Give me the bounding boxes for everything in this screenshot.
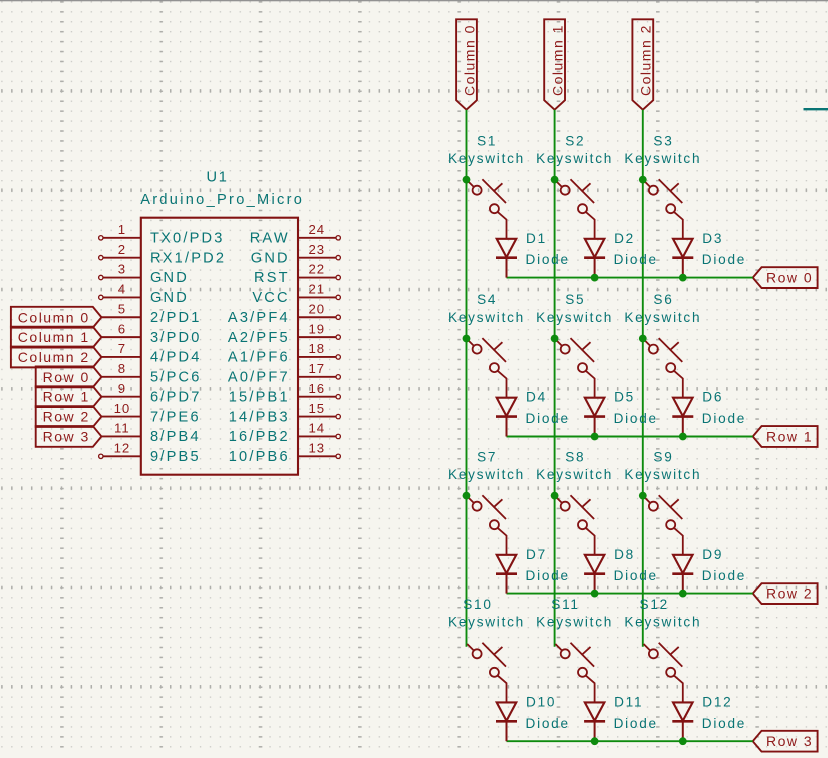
svg-text:RAW: RAW: [250, 231, 290, 247]
svg-text:11: 11: [114, 421, 130, 436]
diode D7: [496, 555, 517, 594]
keyswitch S7: [467, 495, 506, 555]
svg-text:14/PB3: 14/PB3: [229, 409, 290, 425]
svg-text:A2/PF5: A2/PF5: [228, 330, 290, 346]
svg-text:12: 12: [114, 441, 131, 456]
svg-text:S1: S1: [477, 133, 497, 148]
svg-text:D11: D11: [614, 694, 643, 709]
svg-text:10/PB6: 10/PB6: [229, 449, 290, 465]
svg-text:S7: S7: [477, 449, 497, 464]
svg-text:Column 2: Column 2: [18, 349, 90, 365]
hierarchical label Column 0: [11, 307, 102, 328]
svg-text:21: 21: [308, 282, 325, 297]
wire Column 2 vertical: [642, 110, 644, 647]
svg-text:15: 15: [308, 401, 325, 416]
pin 21 VCC (right): [252, 282, 340, 307]
diode D4: [496, 398, 517, 437]
svg-text:A1/PF6: A1/PF6: [228, 350, 290, 366]
svg-text:Arduino_Pro_Micro: Arduino_Pro_Micro: [140, 192, 304, 208]
junction Row 2 / D8: [591, 590, 599, 598]
svg-text:S4: S4: [477, 292, 497, 307]
wire Row 0 horizontal: [507, 277, 753, 279]
diode D6: [672, 398, 693, 437]
wire Column 0 vertical: [466, 110, 468, 647]
hierarchical label Row 2 (right): [753, 583, 818, 604]
svg-text:Keyswitch: Keyswitch: [536, 310, 613, 325]
svg-text:RX1/PD2: RX1/PD2: [150, 250, 226, 266]
svg-text:VCC: VCC: [252, 290, 289, 306]
svg-text:Diode: Diode: [614, 716, 658, 731]
svg-text:13: 13: [308, 441, 325, 456]
svg-text:16/PB2: 16/PB2: [229, 429, 290, 445]
pin 14 16/PB2 (right): [229, 421, 341, 446]
keyswitch S1: [467, 179, 506, 239]
keyswitch S5: [555, 338, 594, 398]
svg-text:9: 9: [118, 381, 126, 396]
junction Column 0 / S4: [463, 335, 471, 343]
wire Row 2 horizontal: [507, 593, 753, 595]
keyswitch S3: [644, 179, 683, 239]
svg-text:18: 18: [308, 341, 325, 356]
svg-text:8: 8: [118, 361, 126, 376]
diode D8: [584, 555, 605, 594]
keyswitch S6: [644, 338, 683, 398]
hierarchical label Row 1 (right): [753, 426, 818, 447]
svg-text:Column 1: Column 1: [18, 329, 90, 345]
pin 17 A0/PF7 (right): [228, 361, 340, 386]
junction Row 0 / D3: [679, 274, 687, 282]
svg-text:Diode: Diode: [614, 411, 658, 426]
svg-text:10: 10: [114, 401, 131, 416]
svg-text:Column 0: Column 0: [18, 309, 90, 325]
stray teal wire stub (right edge): [804, 108, 828, 110]
svg-text:6: 6: [118, 321, 126, 336]
hierarchical label Row 3 (right): [753, 731, 818, 752]
hierarchical label Row 3: [36, 426, 102, 447]
svg-text:4/PD4: 4/PD4: [150, 350, 202, 366]
svg-text:Diode: Diode: [526, 252, 570, 267]
junction Column 2 / S9: [639, 492, 647, 500]
pin 9 6/PD7 (left): [101, 381, 201, 406]
svg-text:TX0/PD3: TX0/PD3: [150, 231, 225, 247]
svg-text:Keyswitch: Keyswitch: [624, 467, 701, 482]
junction Column 0 / S1: [463, 176, 471, 184]
pin 15 14/PB3 (right): [229, 401, 341, 426]
svg-text:5/PC6: 5/PC6: [150, 370, 202, 386]
svg-text:D10: D10: [526, 694, 556, 709]
keyswitch S11: [555, 643, 594, 703]
svg-text:D4: D4: [526, 390, 547, 405]
svg-text:Keyswitch: Keyswitch: [448, 467, 525, 482]
diode D9: [672, 555, 693, 594]
svg-text:9/PB5: 9/PB5: [150, 449, 201, 465]
keyswitch S2: [555, 179, 594, 239]
svg-text:RST: RST: [254, 270, 290, 286]
svg-text:Row 2: Row 2: [766, 586, 813, 602]
svg-text:Diode: Diode: [702, 568, 746, 583]
junction Row 1 / D6: [679, 433, 687, 441]
svg-text:16: 16: [308, 381, 325, 396]
pin 3 GND (left): [99, 262, 189, 287]
pin 7 4/PD4 (left): [101, 341, 201, 366]
hierarchical label Column 2: [11, 347, 102, 368]
svg-text:4: 4: [118, 282, 126, 297]
svg-text:S5: S5: [565, 292, 585, 307]
svg-text:Column 2: Column 2: [638, 24, 654, 96]
svg-text:Diode: Diode: [526, 568, 570, 583]
svg-text:Diode: Diode: [526, 716, 570, 731]
keyswitch S8: [555, 495, 594, 555]
svg-text:Column 1: Column 1: [549, 24, 565, 96]
svg-text:D12: D12: [702, 694, 732, 709]
keyswitch S10: [467, 643, 506, 703]
svg-text:Keyswitch: Keyswitch: [448, 151, 525, 166]
hierarchical label Column 2 (top): [632, 19, 653, 109]
svg-text:Row 3: Row 3: [766, 733, 813, 749]
svg-text:D7: D7: [526, 547, 547, 562]
svg-text:23: 23: [308, 242, 325, 257]
svg-text:U1: U1: [207, 170, 229, 186]
diode D2: [584, 239, 605, 278]
svg-text:7: 7: [118, 341, 126, 356]
svg-text:Row 3: Row 3: [43, 428, 90, 444]
junction Row 3 / D11: [591, 737, 599, 745]
keyswitch S4: [467, 338, 506, 398]
svg-text:8/PB4: 8/PB4: [150, 429, 201, 445]
svg-text:7/PE6: 7/PE6: [150, 409, 201, 425]
svg-text:Keyswitch: Keyswitch: [536, 151, 613, 166]
svg-text:Row 0: Row 0: [43, 369, 90, 385]
diode D3: [672, 239, 693, 278]
svg-text:S8: S8: [565, 449, 585, 464]
svg-text:S3: S3: [653, 133, 673, 148]
junction Column 1 / S8: [551, 492, 559, 500]
svg-text:Keyswitch: Keyswitch: [536, 615, 613, 630]
svg-text:Row 1: Row 1: [43, 389, 90, 405]
hierarchical label Column 1: [11, 327, 102, 348]
svg-text:A0/PF7: A0/PF7: [228, 370, 290, 386]
pin 8 5/PC6 (left): [101, 361, 201, 386]
pin 2 RX1/PD2 (left): [99, 242, 227, 266]
svg-text:14: 14: [308, 421, 325, 436]
svg-text:20: 20: [308, 301, 325, 316]
svg-text:S12: S12: [640, 597, 669, 612]
svg-text:GND: GND: [251, 250, 290, 266]
diode D1: [496, 239, 517, 278]
svg-text:Keyswitch: Keyswitch: [448, 310, 525, 325]
diode D11: [584, 702, 605, 741]
svg-text:S6: S6: [653, 292, 673, 307]
keyswitch S12: [644, 643, 683, 703]
hierarchical label Row 0: [36, 366, 102, 387]
pin 20 A3/PF4 (right): [228, 301, 340, 326]
junction Column 2 / S6: [639, 335, 647, 343]
svg-text:Keyswitch: Keyswitch: [624, 151, 701, 166]
junction Column 2 / S3: [639, 176, 647, 184]
IC U1 Arduino_Pro_Micro body: [141, 218, 298, 475]
diode D5: [584, 398, 605, 437]
junction Column 1 / S5: [551, 335, 559, 343]
hierarchical label Row 1: [36, 386, 102, 407]
svg-text:Diode: Diode: [702, 252, 746, 267]
svg-text:S11: S11: [551, 597, 579, 612]
svg-text:3: 3: [118, 262, 126, 277]
svg-text:17: 17: [308, 361, 325, 376]
svg-text:Diode: Diode: [702, 716, 746, 731]
pin 13 10/PB6 (right): [229, 441, 341, 466]
pin 10 7/PE6 (left): [101, 401, 200, 426]
svg-text:Keyswitch: Keyswitch: [536, 467, 613, 482]
svg-text:Row 0: Row 0: [766, 270, 813, 286]
svg-text:Row 2: Row 2: [43, 409, 90, 425]
pin 12 9/PB5 (left): [99, 441, 201, 466]
svg-text:1: 1: [118, 222, 126, 237]
svg-text:Keyswitch: Keyswitch: [624, 615, 701, 630]
junction Row 0 / D2: [591, 274, 599, 282]
pin 1 TX0/PD3 (left): [99, 222, 225, 247]
svg-text:D6: D6: [702, 390, 723, 405]
junction Column 1 / S2: [551, 176, 559, 184]
svg-text:22: 22: [308, 262, 325, 277]
svg-text:Diode: Diode: [526, 411, 570, 426]
svg-text:D3: D3: [702, 231, 723, 246]
svg-text:D9: D9: [702, 547, 723, 562]
pin 11 8/PB4 (left): [101, 421, 200, 446]
top window edge: [0, 0, 828, 1]
diode D12: [672, 702, 693, 741]
svg-text:Diode: Diode: [614, 568, 658, 583]
svg-text:D8: D8: [614, 547, 635, 562]
svg-text:S10: S10: [463, 597, 492, 612]
svg-text:2: 2: [118, 242, 126, 257]
pin 5 2/PD1 (left): [101, 301, 201, 326]
svg-text:19: 19: [308, 321, 325, 336]
svg-text:15/PB1: 15/PB1: [229, 389, 290, 405]
svg-text:GND: GND: [150, 290, 189, 306]
pin 16 15/PB1 (right): [229, 381, 341, 406]
junction Column 0 / S7: [463, 492, 471, 500]
pin 6 3/PD0 (left): [101, 321, 201, 346]
junction Row 2 / D9: [679, 590, 687, 598]
svg-text:6/PD7: 6/PD7: [150, 389, 202, 405]
svg-text:Diode: Diode: [702, 411, 746, 426]
svg-text:D2: D2: [614, 231, 635, 246]
svg-text:Diode: Diode: [614, 252, 658, 267]
svg-text:S9: S9: [653, 449, 673, 464]
keyswitch S9: [644, 495, 683, 555]
svg-text:Column 0: Column 0: [461, 24, 477, 96]
pin 22 RST (right): [254, 262, 340, 287]
hierarchical label Column 0 (top): [456, 19, 477, 109]
pin 4 GND (left): [99, 282, 189, 307]
wire Row 3 horizontal: [507, 740, 753, 742]
junction Row 3 / D12: [679, 737, 687, 745]
pin 18 A1/PF6 (right): [228, 341, 340, 366]
svg-text:Keyswitch: Keyswitch: [624, 310, 701, 325]
hierarchical label Row 0 (right): [753, 267, 818, 288]
pin 23 GND (right): [251, 242, 341, 266]
svg-text:Row 1: Row 1: [766, 429, 813, 445]
svg-text:A3/PF4: A3/PF4: [228, 310, 290, 326]
pin 24 RAW (right): [250, 222, 341, 247]
wire Row 1 horizontal: [507, 436, 753, 438]
svg-text:5: 5: [118, 301, 126, 316]
svg-text:D5: D5: [614, 390, 635, 405]
pin 19 A2/PF5 (right): [228, 321, 340, 346]
svg-text:D1: D1: [526, 231, 547, 246]
hierarchical label Column 1 (top): [544, 19, 565, 109]
hierarchical label Row 2: [36, 406, 102, 427]
svg-text:Keyswitch: Keyswitch: [448, 615, 525, 630]
svg-text:24: 24: [308, 222, 325, 237]
svg-text:3/PD0: 3/PD0: [150, 330, 202, 346]
junction Row 1 / D5: [591, 433, 599, 441]
svg-text:2/PD1: 2/PD1: [150, 310, 202, 326]
svg-text:S2: S2: [565, 133, 585, 148]
svg-text:GND: GND: [150, 270, 189, 286]
wire Column 1 vertical: [554, 110, 556, 647]
diode D10: [496, 702, 517, 741]
